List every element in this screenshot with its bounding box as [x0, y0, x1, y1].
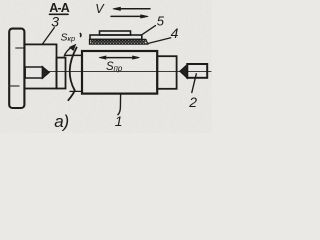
leader 2: [192, 74, 197, 93]
svg-text:): ): [61, 112, 69, 132]
section label A-A underline: [50, 13, 69, 15]
V reciprocation arrow lower: [111, 15, 148, 18]
disc dash upper: [16, 47, 24, 49]
svg-text:а: а: [54, 112, 63, 131]
svg-text:кр: кр: [68, 34, 76, 43]
abrasive stone 4: [90, 39, 148, 44]
tailstock body: [187, 64, 207, 78]
neck top line: [66, 54, 82, 56]
faceplate disc 3: [9, 29, 24, 108]
collar: [57, 58, 66, 89]
svg-text:3: 3: [51, 13, 59, 29]
center cylinder: [25, 67, 42, 78]
holder top block 5: [100, 31, 131, 35]
leader 5: [141, 26, 156, 36]
feed arrow Snp double: [99, 56, 140, 59]
center cone: [43, 67, 50, 78]
clamp arc: [68, 47, 76, 100]
hub housing: [25, 44, 57, 88]
leader 4: [147, 38, 171, 44]
holder plate: [90, 35, 142, 39]
svg-text:S: S: [61, 32, 68, 44]
leader 1: [118, 94, 121, 115]
step journal: [157, 56, 176, 89]
tailstock cone 2: [180, 65, 187, 78]
svg-text:2: 2: [188, 94, 197, 110]
svg-text:4: 4: [171, 25, 179, 41]
ink speck: [79, 34, 82, 37]
svg-text:5: 5: [157, 14, 165, 29]
disc dash lower: [10, 85, 20, 87]
svg-text:пр: пр: [114, 64, 123, 73]
leader 3: [42, 28, 54, 45]
V reciprocation arrow upper: [113, 7, 150, 10]
rotation arrow Skr: [64, 47, 73, 57]
centerline axis: [44, 71, 211, 73]
stone hatch mid: [91, 41, 147, 43]
stone hatch reverse: [91, 40, 145, 44]
svg-text:1: 1: [115, 113, 123, 129]
workpiece body 1: [82, 51, 157, 94]
stone hatch: [91, 40, 145, 44]
neck bottom line: [70, 90, 82, 92]
